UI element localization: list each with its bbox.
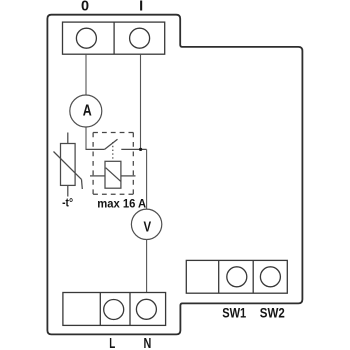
- svg-text:0: 0: [81, 0, 89, 15]
- ammeter A: [70, 95, 102, 127]
- voltmeter V: [131, 209, 161, 239]
- thermistor -t°: [54, 133, 83, 197]
- device outline: [47, 15, 302, 335]
- wire voltmeter to N terminal: [146, 240, 148, 293]
- switch output lead: [121, 148, 146, 150]
- svg-text:SW2: SW2: [260, 305, 285, 321]
- svg-text:SW1: SW1: [222, 305, 246, 321]
- svg-text:I: I: [139, 0, 143, 15]
- wire I-terminal down: [140, 54, 142, 149]
- bottom terminal block L N: [63, 293, 166, 326]
- mechanical link (dotted): [112, 142, 114, 161]
- switch blade: [105, 139, 118, 149]
- svg-text:max 16 A: max 16 A: [97, 197, 146, 211]
- svg-text:L: L: [109, 336, 115, 350]
- junction node: [139, 148, 142, 151]
- wire junction to voltmeter: [146, 149, 148, 209]
- wire ammeter to switch: [85, 127, 87, 149]
- switch common lead: [86, 148, 105, 150]
- relay dashed box: [93, 133, 133, 195]
- svg-text:A: A: [83, 103, 92, 120]
- svg-text:-t°: -t°: [62, 198, 73, 210]
- wire 0-terminal to ammeter: [85, 54, 87, 95]
- SW terminal block: [186, 260, 287, 293]
- svg-text:V: V: [144, 219, 152, 235]
- svg-text:N: N: [144, 336, 152, 350]
- top terminal block: [63, 22, 165, 54]
- relay coil: [90, 161, 136, 188]
